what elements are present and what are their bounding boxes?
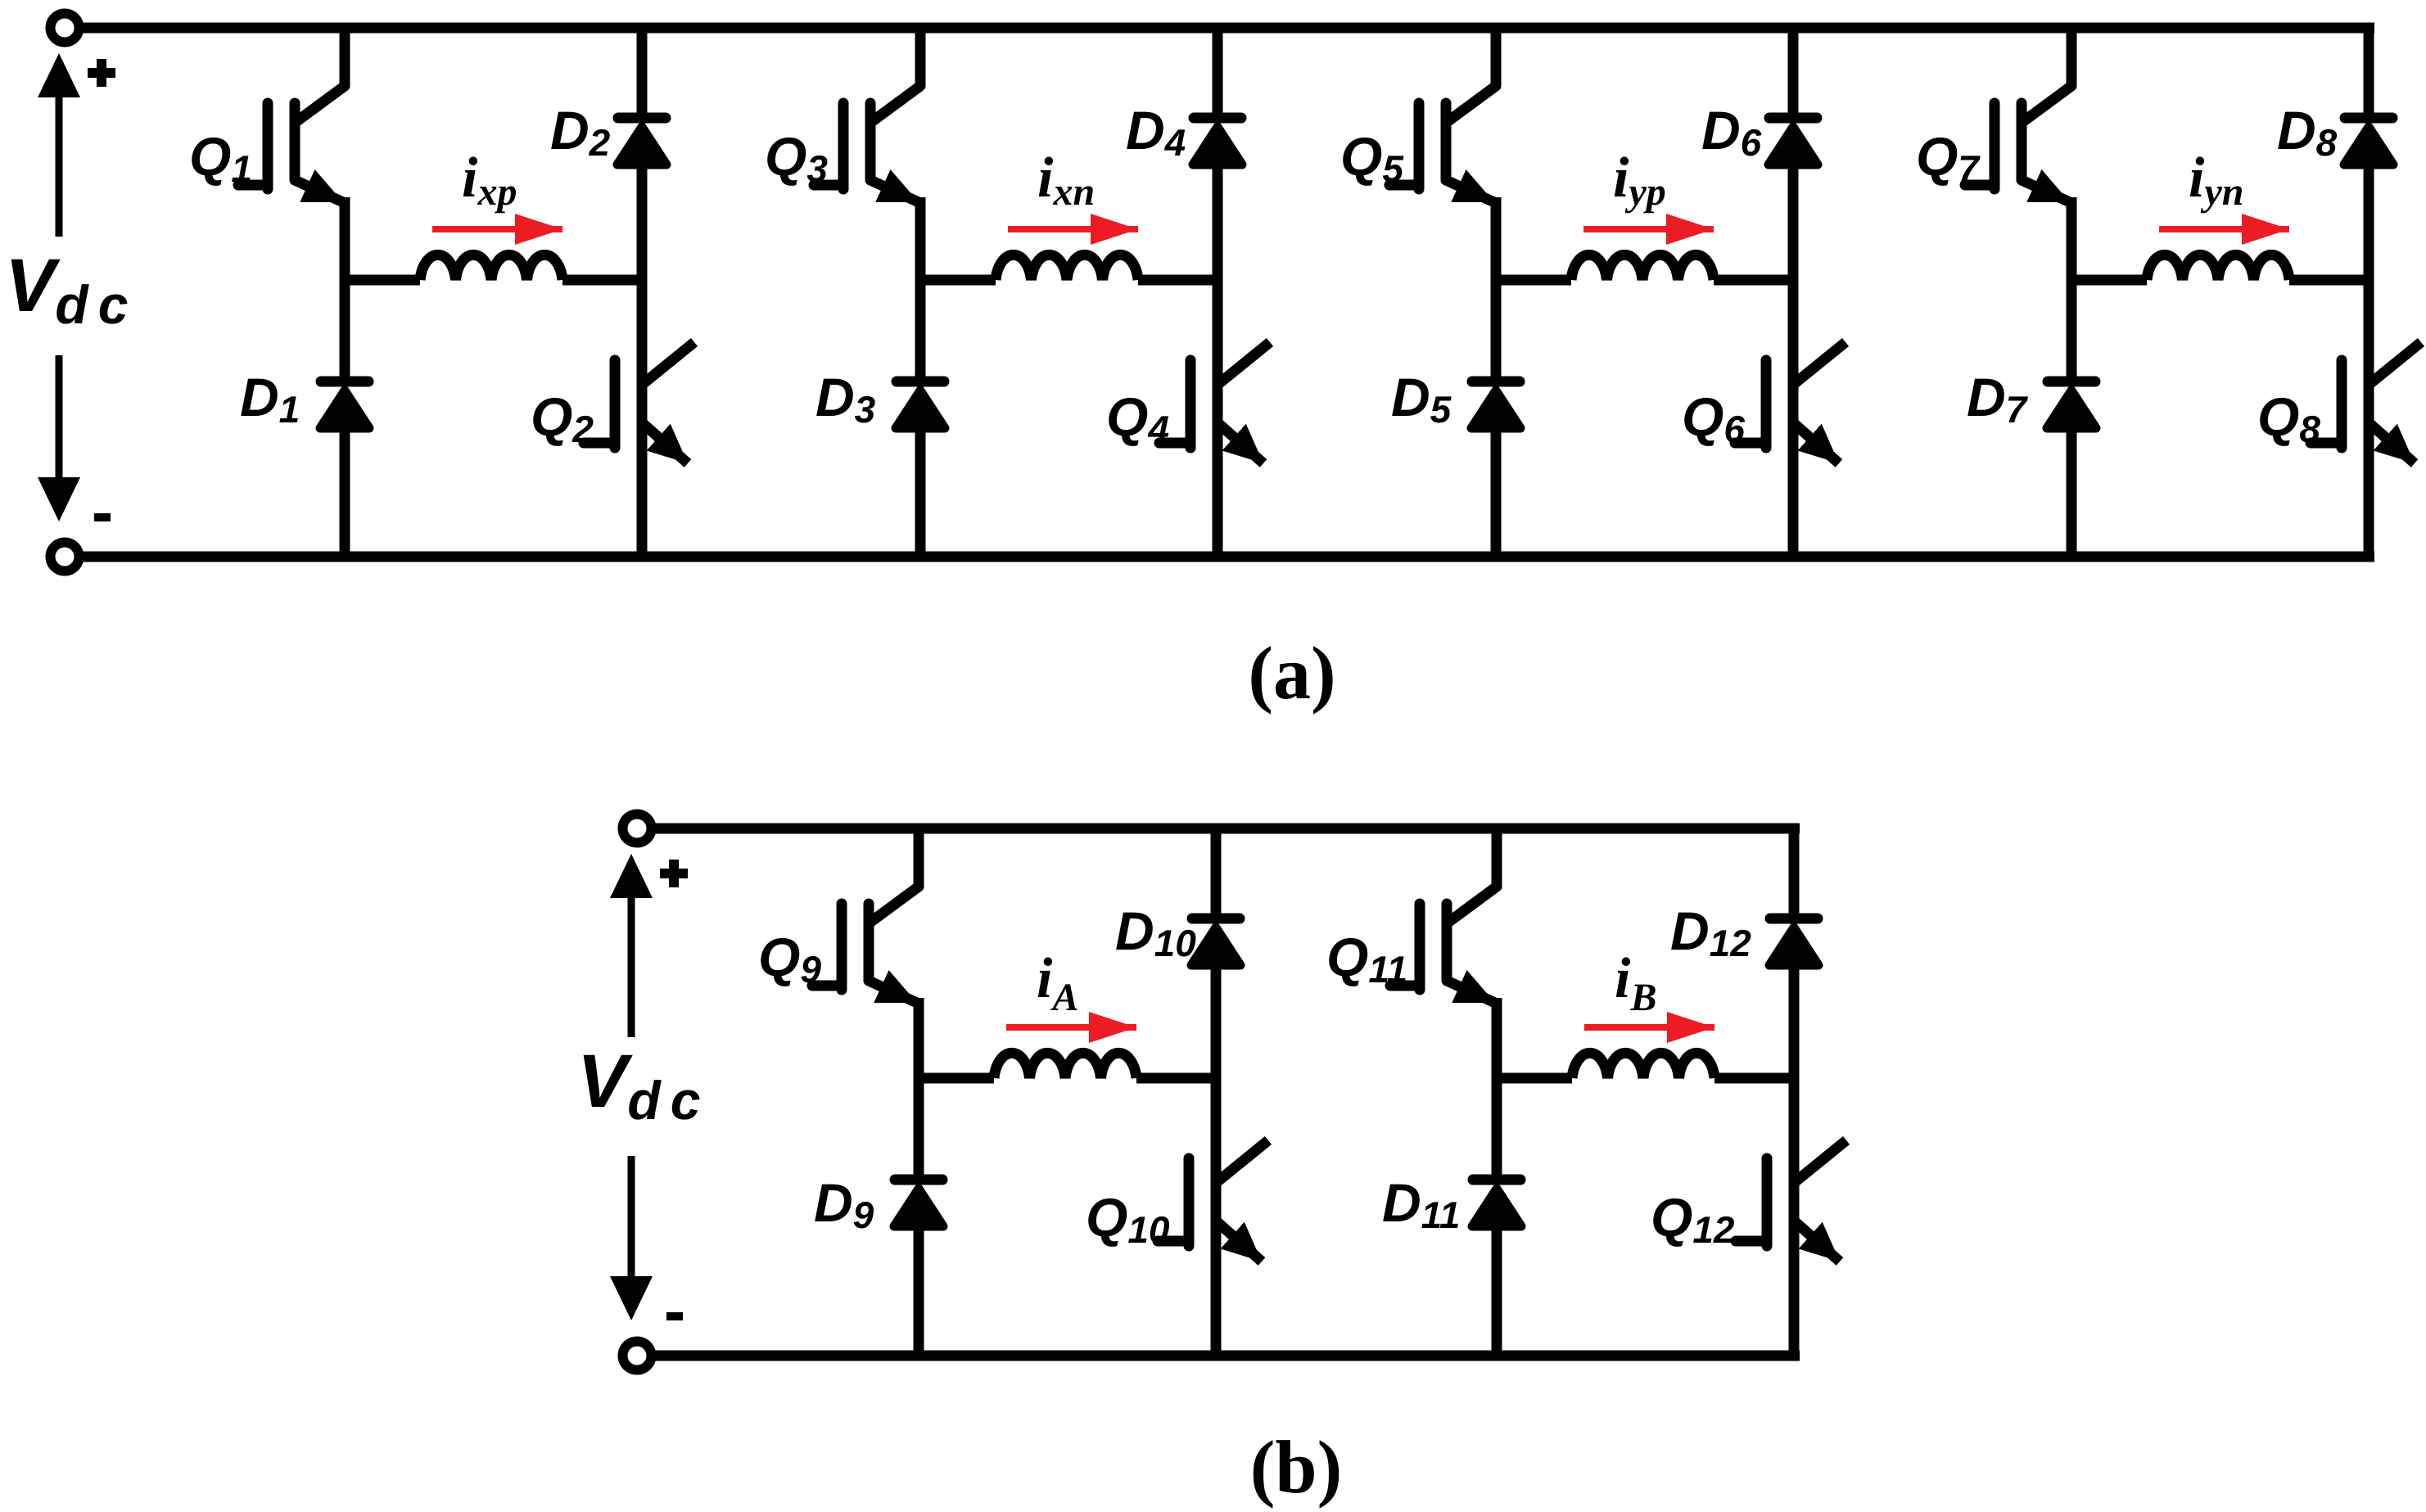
diode D1 triangle [320,390,369,428]
wire node Q3-emitter to inductor [915,275,996,286]
current arrow ixn [1008,226,1138,232]
terminal positive terminal (b) [623,815,652,843]
wire inductor to D4 leg [1138,275,1222,286]
svg-text:Q5: Q5 [1340,126,1404,190]
wire Q11 emitter to midpoint [1492,998,1502,1078]
svg-text:ixp: ixp [462,147,517,214]
wire D11 to bottom rail [1492,1224,1502,1356]
svg-text:Q7: Q7 [1916,126,1981,190]
transistor Q7 collector wire+diagonal [2022,28,2071,123]
diode D1 cathode bar [321,377,368,387]
svg-text:iyp: iyp [1613,147,1666,214]
svg-text:D9: D9 [814,1172,874,1236]
wire D1 anode leg [340,280,350,381]
wire D8/Q8 leg [2364,162,2374,557]
wire bottom rail (a) [65,552,2374,562]
transistor Q7 gate bar [1990,103,2000,189]
wire D10/Q10 leg [1211,963,1222,1356]
diode D3 triangle [896,390,945,428]
transistor Q1 body bar [290,103,300,180]
transistor Q10 gate lead [1158,1236,1189,1247]
wire D10 cathode leg [1211,828,1222,918]
minus sign (b) [666,1312,683,1320]
svg-text:Q8: Q8 [2257,386,2320,450]
terminal negative terminal (b) [623,1342,652,1370]
transistor Q10 emitter arrow [1218,1222,1262,1262]
wire top rail (a) [65,23,2374,34]
wire inductor to D10 leg [1136,1073,1221,1084]
transistor Q4 gate lead [1159,438,1190,449]
transistor Q9 body bar [864,904,874,981]
wire D3 anode leg [915,280,926,381]
terminal positive terminal (a) [51,14,79,43]
Vdc arrowhead down (b) [610,1276,653,1320]
wire D5 to bottom rail [1491,426,1502,557]
transistor Q4 emitter arrow [1219,424,1263,463]
svg-text:Q1: Q1 [189,126,252,190]
transistor Q11 body bar [1442,904,1452,981]
transistor Q6 gate bar [1761,360,1772,448]
svg-text:(b): (b) [1250,1425,1342,1509]
transistor Q6 collector diagonal [1793,342,1845,385]
transistor Q11 emitter arrow [1447,981,1495,1003]
svg-text:iyn: iyn [2189,147,2243,214]
svg-text:D11: D11 [1382,1172,1460,1236]
transistor Q2 emitter arrow [644,424,688,463]
svg-text:Q9: Q9 [758,927,821,991]
svg-text:iB: iB [1615,947,1656,1019]
wire D8 cathode leg [2364,28,2374,118]
inductor L xn [996,255,1138,280]
diode D3 cathode bar [897,377,944,387]
wire inductor to D6 leg [1714,275,1798,286]
svg-text:D1: D1 [240,367,300,431]
transistor Q1 collector wire+diagonal [295,28,345,123]
diode D4 triangle [1193,127,1242,165]
wire D1 to bottom rail [340,426,350,557]
transistor Q11 gate lead [1390,981,1420,991]
svg-text:ixn: ixn [1037,147,1095,214]
wire D12 cathode leg [1789,828,1800,918]
transistor Q10 collector diagonal [1216,1140,1268,1183]
svg-text:D12: D12 [1670,900,1751,964]
diode D2 triangle [617,127,666,165]
transistor Q12 gate bar [1762,1158,1773,1246]
transistor Q2 gate bar [610,360,621,448]
transistor Q8 collector diagonal [2369,342,2421,385]
transistor Q6 emitter arrow [1795,424,1839,463]
Vdc arrow shaft upper (b) [628,898,635,1037]
transistor Q3 collector wire+diagonal [870,28,920,123]
transistor Q2 collector diagonal [642,342,694,385]
diode D5 cathode bar [1472,377,1520,387]
wire node Q1-emitter to inductor [340,275,420,286]
transistor Q1 gate bar [263,103,273,189]
wire inductor to D12 leg [1714,1073,1799,1084]
diode D4 cathode bar [1194,113,1241,124]
diode D6 triangle [1769,127,1818,165]
svg-text:D4: D4 [1126,100,1186,164]
inductor L B [1572,1053,1714,1078]
wire Q9 emitter to midpoint [914,998,924,1078]
transistor Q10 gate bar [1184,1158,1195,1246]
wire Q7 emitter to midpoint [2067,197,2077,280]
current arrow iB [1584,1024,1714,1031]
diode D11 triangle [1472,1189,1521,1226]
transistor Q12 gate lead [1736,1236,1767,1247]
transistor Q9 emitter arrow [869,981,917,1003]
svg-text:Vdc: Vdc [5,244,138,335]
transistor Q12 emitter arrow [1796,1222,1840,1262]
Vdc arrowhead down (a) [38,477,80,521]
diode D12 cathode bar [1770,914,1818,924]
transistor Q1 emitter arrow [295,180,343,202]
transistor Q11 collector wire+diagonal [1447,828,1497,923]
transistor Q1 gate lead [238,180,268,191]
transistor Q12 collector diagonal [1794,1140,1846,1183]
wire node Q5-emitter to inductor [1491,275,1571,286]
transistor Q9 collector wire+diagonal [869,828,919,923]
transistor Q4 collector diagonal [1218,342,1270,385]
transistor Q3 gate bar [838,103,849,189]
transistor Q3 body bar [865,103,876,180]
current arrow iyp [1583,226,1714,232]
transistor Q5 emitter arrow [1446,180,1494,202]
wire Q1 emitter to midpoint [340,197,350,280]
plus sign (a) [88,59,115,87]
diode D5 triangle [1471,390,1520,428]
plus sign (b) [660,860,688,887]
diode D10 triangle [1191,928,1240,965]
svg-text:iA: iA [1037,947,1078,1019]
svg-text:D6: D6 [1701,100,1762,164]
wire D4 cathode leg [1213,28,1223,118]
wire D5 anode leg [1491,280,1502,381]
transistor Q2 gate lead [584,438,615,449]
svg-text:Q12: Q12 [1651,1187,1735,1251]
wire inductor to D8 leg [2289,275,2374,286]
svg-text:D10: D10 [1115,900,1196,964]
wire bottom rail (b) [637,1351,1800,1361]
Vdc arrow shaft lower (b) [628,1156,635,1276]
wire D9 to bottom rail [914,1224,924,1356]
wire D2/Q2 leg [637,162,648,557]
inductor L yn [2147,255,2289,280]
diode D7 cathode bar [2048,377,2095,387]
svg-text:Q10: Q10 [1086,1187,1170,1251]
transistor Q7 gate lead [1965,180,1995,191]
current arrow ixp [432,226,562,232]
svg-text:Q6: Q6 [1682,386,1745,450]
wire node Q7-emitter to inductor [2067,275,2147,286]
wire D6/Q6 leg [1788,162,1799,557]
transistor Q8 emitter arrow [2370,424,2415,463]
terminal negative terminal (a) [51,543,79,571]
svg-text:D5: D5 [1391,367,1452,431]
transistor Q7 emitter arrow [2022,180,2070,202]
transistor Q9 gate lead [812,981,842,991]
transistor Q3 emitter arrow [870,180,919,202]
svg-text:D8: D8 [2277,100,2338,164]
transistor Q3 gate lead [814,180,843,191]
Vdc arrowhead up (b) [610,854,653,898]
transistor Q5 gate bar [1414,103,1425,189]
transistor Q6 gate lead [1735,438,1766,449]
transistor Q8 gate lead [2311,438,2342,449]
transistor Q7 body bar [2017,103,2027,180]
wire node Q11-emitter to inductor [1492,1073,1572,1084]
diode D9 triangle [894,1189,943,1226]
Vdc arrow shaft lower (a) [56,355,63,477]
diode D8 cathode bar [2345,113,2392,124]
wire Q3 emitter to midpoint [915,197,926,280]
diode D7 triangle [2047,390,2096,428]
svg-text:(a): (a) [1248,631,1335,715]
transistor Q5 gate lead [1389,180,1419,191]
svg-text:Q11: Q11 [1326,927,1407,991]
wire D9 anode leg [914,1078,924,1180]
svg-text:D3: D3 [815,367,876,431]
wire D4/Q4 leg [1213,162,1223,557]
wire D12/Q12 leg [1789,963,1800,1356]
diode D10 cathode bar [1192,914,1240,924]
wire D3 to bottom rail [915,426,926,557]
diode D11 cathode bar [1473,1175,1520,1185]
inductor L yp [1571,255,1714,280]
wire top rail (b) [637,824,1800,834]
diode D8 triangle [2344,127,2393,165]
wire inductor to D2 leg [562,275,647,286]
current arrow iA [1006,1024,1136,1031]
svg-text:D7: D7 [1967,367,2029,431]
inductor L xp [420,255,562,280]
diode D12 triangle [1769,928,1818,965]
wire D2 cathode leg [637,28,648,118]
transistor Q5 body bar [1441,103,1452,180]
transistor Q5 collector wire+diagonal [1446,28,1496,123]
transistor Q11 gate bar [1415,904,1425,990]
transistor Q4 gate bar [1186,360,1196,448]
Vdc arrow shaft upper (a) [56,97,63,237]
wire D6 cathode leg [1788,28,1799,118]
svg-text:Q3: Q3 [765,126,828,190]
minus sign (a) [94,513,111,521]
wire Q5 emitter to midpoint [1491,197,1502,280]
svg-text:D2: D2 [550,100,611,164]
diode D9 cathode bar [895,1175,942,1185]
inductor L A [994,1053,1136,1078]
transistor Q8 gate bar [2337,360,2347,448]
diode D6 cathode bar [1769,113,1817,124]
svg-text:Q4: Q4 [1106,386,1169,450]
diode D2 cathode bar [618,113,666,124]
wire D7 anode leg [2067,280,2077,381]
wire D11 anode leg [1492,1078,1502,1180]
wire D7 to bottom rail [2067,426,2077,557]
svg-text:Q2: Q2 [531,386,594,450]
wire node Q9-emitter to inductor [914,1073,994,1084]
svg-text:Vdc: Vdc [577,1040,710,1131]
transistor Q9 gate bar [837,904,847,990]
current arrow iyn [2159,226,2289,232]
Vdc arrowhead up (a) [38,53,80,97]
